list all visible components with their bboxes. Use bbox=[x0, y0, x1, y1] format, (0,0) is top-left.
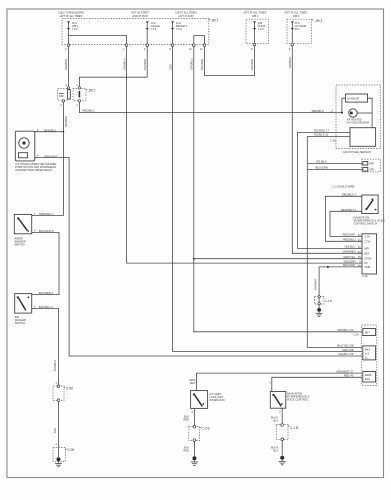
svg-text:RED: RED bbox=[184, 448, 190, 452]
wire from pin 193.8 down, branch row5, to row A bbox=[194, 47, 362, 332]
header above J/B2 fuse bbox=[244, 11, 267, 18]
J/B 1 label bbox=[209, 18, 219, 22]
SW-B2 bottom chain bbox=[281, 408, 283, 424]
exhaust inner rect R1 bbox=[345, 94, 367, 102]
svg-text:MFI: MFI bbox=[365, 246, 370, 250]
svg-text:GRN: GRN bbox=[168, 64, 172, 70]
svg-text:RED/BLU: RED/BLU bbox=[312, 109, 324, 113]
svg-text:C-2 B: C-2 B bbox=[202, 427, 210, 431]
fuse F4 bbox=[253, 21, 266, 32]
svg-text:WHT: WHT bbox=[190, 381, 196, 385]
switch SW2 (left) bbox=[15, 291, 54, 325]
svg-text:J/B 3: J/B 3 bbox=[315, 19, 322, 23]
fuse F3 bbox=[171, 21, 188, 32]
svg-text:GND: GND bbox=[365, 265, 371, 269]
svg-text:AND AT RUN: AND AT RUN bbox=[132, 14, 148, 18]
svg-text:RED/BLU: RED/BLU bbox=[64, 116, 68, 127]
svg-text:BK5: BK5 bbox=[365, 251, 370, 255]
svg-text:CONTROL SWITCH: CONTROL SWITCH bbox=[354, 222, 378, 226]
R1 output loop bbox=[368, 98, 373, 128]
svg-text:C-2 SHIELD WIRE: C-2 SHIELD WIRE bbox=[333, 184, 355, 188]
svg-text:GRN/BLU: GRN/BLU bbox=[122, 58, 126, 70]
ECU module box (right) bbox=[362, 234, 377, 278]
svg-text:EXHAUST: EXHAUST bbox=[347, 97, 360, 101]
relay assembly in J/B 2 bbox=[58, 83, 96, 107]
svg-text:30 2: 30 2 bbox=[295, 27, 301, 31]
svg-text:C7 B: C7 B bbox=[365, 239, 371, 243]
svg-text:EMPL: EMPL bbox=[365, 373, 373, 377]
svg-text:GRN/BLU: GRN/BLU bbox=[190, 58, 194, 70]
wire from pin 126.6 down to ECU row6 bbox=[127, 47, 362, 264]
header HOT IN START/RUN bbox=[131, 11, 149, 18]
fuse F5 bbox=[291, 21, 306, 32]
svg-text:MFI: MFI bbox=[370, 162, 375, 166]
jumper bar pins 193.8-204.5 bbox=[194, 36, 205, 45]
ECU2 row labels bbox=[336, 328, 354, 378]
junction block J/B 1 (dashed) bbox=[62, 19, 209, 45]
fuse F2 bbox=[146, 21, 161, 32]
svg-text:GRN/BLU 1: GRN/BLU 1 bbox=[39, 212, 54, 216]
connector C-2 B bbox=[189, 425, 210, 441]
heater element circle bbox=[347, 109, 373, 125]
svg-text:RED/BLU: RED/BLU bbox=[343, 238, 355, 242]
svg-text:J/B 1: J/B 1 bbox=[211, 18, 218, 22]
motor component (left) bbox=[15, 128, 57, 172]
header HOT AT ALL TIMES (left) bbox=[58, 11, 84, 18]
svg-text:INTERMITTENT WIPER RELAY: INTERMITTENT WIPER RELAY bbox=[15, 168, 52, 172]
svg-text:C-4 B: C-4 B bbox=[325, 299, 332, 303]
svg-text:GRN/BLU 30: GRN/BLU 30 bbox=[337, 328, 354, 332]
svg-text:MFI: MFI bbox=[370, 168, 375, 172]
svg-text:7 2.5: 7 2.5 bbox=[151, 27, 157, 31]
svg-text:RED/BLU: RED/BLU bbox=[83, 108, 95, 112]
bus from F1 to pin 126.6 bbox=[69, 32, 127, 44]
svg-text:OXYGEN SENSOR: OXYGEN SENSOR bbox=[347, 121, 370, 125]
fuse F1 C/B 1 bbox=[67, 21, 79, 32]
ECU2 module (bottom right, dashed container) bbox=[362, 325, 377, 386]
svg-text:BLU/RED: BLU/RED bbox=[250, 59, 254, 70]
svg-text:GRN/RED: GRN/RED bbox=[343, 250, 356, 254]
connector C-06 (left chain) bbox=[53, 381, 73, 401]
exhaust sensor assembly (dashed box right) bbox=[336, 85, 380, 149]
svg-text:BLK/RED 2: BLK/RED 2 bbox=[39, 291, 54, 295]
svg-text:RED/BLU: RED/BLU bbox=[64, 59, 68, 70]
SW-B1 bottom chain bbox=[193, 408, 195, 425]
svg-text:C-1 B: C-1 B bbox=[290, 426, 298, 430]
wire from J/B3 pin down to ECU row4 bbox=[292, 46, 362, 253]
svg-text:RED/WHT 2: RED/WHT 2 bbox=[341, 208, 357, 212]
svg-text:BLK: BLK bbox=[273, 418, 278, 422]
svg-text:BLU/GRN: BLU/GRN bbox=[316, 166, 328, 170]
svg-text:RED: RED bbox=[184, 418, 190, 422]
SW1 bottom wire down to SW2 bbox=[32, 232, 59, 294]
motor bottom long wire to ECU2 row D bbox=[35, 158, 362, 357]
svg-text:27GN: 27GN bbox=[365, 257, 372, 261]
wire RED/BLU from pin 68.5 to relay bbox=[68, 47, 70, 88]
svg-text:C-05: C-05 bbox=[67, 448, 74, 452]
svg-text:HOT IN RUN: HOT IN RUN bbox=[178, 14, 193, 18]
header HOT AT ALL TIMES (third) bbox=[175, 11, 197, 18]
svg-text:P2: P2 bbox=[365, 261, 369, 265]
switch SW1 (left) bbox=[14, 212, 54, 247]
svg-text:VOICE CONTROL: VOICE CONTROL bbox=[287, 397, 309, 401]
ground G1 (left) bbox=[55, 457, 62, 467]
svg-text:C-06: C-06 bbox=[66, 386, 73, 390]
exhaust inner rect R2 bbox=[350, 128, 376, 147]
MFI small dashed box bbox=[362, 159, 381, 172]
svg-text:C-16: C-16 bbox=[330, 138, 336, 142]
svg-text:BLK: BLK bbox=[273, 448, 278, 452]
svg-text:C/B 3: C/B 3 bbox=[293, 14, 300, 18]
wire F2 to pin bbox=[146, 32, 148, 44]
svg-text:J/B 2: J/B 2 bbox=[88, 89, 95, 93]
svg-text:RED/WHT: RED/WHT bbox=[342, 233, 355, 237]
junction dot and branch to R1 bbox=[341, 112, 343, 114]
SW3 wires to ECU rows 1-2 bbox=[325, 196, 362, 241]
svg-text:MFI: MFI bbox=[365, 330, 370, 334]
navigation switch SW3 (right) bbox=[354, 195, 386, 226]
svg-text:RED/BLU 3: RED/BLU 3 bbox=[342, 193, 357, 197]
svg-text:YEL/BLK: YEL/BLK bbox=[316, 160, 327, 164]
svg-text:BLU/RED: BLU/RED bbox=[200, 59, 204, 70]
svg-text:GRN/YEL: GRN/YEL bbox=[343, 255, 356, 259]
relay output long wire to exhaust sensor bbox=[79, 102, 342, 113]
ground G4 bbox=[279, 456, 286, 465]
SW-B2 top wire to ECU2 row F bbox=[272, 377, 362, 391]
svg-text:7 2.5: 7 2.5 bbox=[258, 27, 264, 31]
ground G3 bbox=[191, 456, 198, 465]
svg-text:BLK: BLK bbox=[53, 428, 57, 433]
svg-text:7 2.5: 7 2.5 bbox=[176, 27, 182, 31]
svg-text:RED/BLU: RED/BLU bbox=[288, 57, 292, 68]
wires from R2 to left corners bbox=[298, 133, 363, 249]
svg-text:E/M: E/M bbox=[365, 377, 370, 381]
svg-text:YEL/BLU 36: YEL/BLU 36 bbox=[338, 352, 354, 356]
SW-B1 top wire to ECU2 row E bbox=[196, 373, 361, 391]
connector pins on J/B bottom edges bbox=[67, 44, 70, 47]
svg-text:SWITCH: SWITCH bbox=[15, 321, 25, 325]
svg-text:7 2.5: 7 2.5 bbox=[72, 27, 78, 31]
pin numbers bbox=[65, 47, 291, 51]
wire to ground (left) bbox=[58, 402, 60, 458]
wire F3 to pin bbox=[172, 32, 174, 44]
svg-text:INTERLOCK): INTERLOCK) bbox=[209, 398, 225, 402]
svg-text:BLK/WHT: BLK/WHT bbox=[314, 278, 318, 290]
svg-text:HOT AT ALL TIMES: HOT AT ALL TIMES bbox=[60, 14, 83, 18]
svg-text:SWITCH: SWITCH bbox=[14, 243, 24, 247]
svg-text:C16: C16 bbox=[354, 332, 359, 336]
bottom switch SW-B2 bbox=[270, 391, 309, 408]
ECU row labels and pin numbers bbox=[342, 233, 356, 268]
splice connector (left bottom) bbox=[53, 448, 74, 462]
svg-text:C-16: C-16 bbox=[362, 274, 368, 278]
svg-text:BLU/WHT: BLU/WHT bbox=[143, 58, 147, 70]
ground G2 (right) bbox=[316, 308, 323, 317]
header above J/B3 fuse bbox=[285, 11, 308, 18]
U wire pin 204.5 to J/B2 fuse pin 254.5 bbox=[205, 46, 255, 76]
relay output to motor / switch chain bbox=[32, 102, 64, 215]
svg-text:BK3: BK3 bbox=[365, 347, 370, 351]
junction block J/B 3 (dashed, fuse box) bbox=[287, 19, 312, 44]
svg-text:BLK/BLU: BLK/BLU bbox=[53, 360, 57, 371]
svg-text:YEL/BLK 11: YEL/BLK 11 bbox=[313, 133, 328, 137]
svg-text:A/D OXYGEN SENSOR: A/D OXYGEN SENSOR bbox=[343, 150, 371, 154]
wire from pin 172.6 down to row C bbox=[173, 47, 362, 352]
svg-text:C/B 2: C/B 2 bbox=[252, 14, 259, 18]
connector on ground wire bbox=[315, 296, 333, 305]
connector C-1 B bbox=[276, 424, 298, 441]
ECU row7 wire to ground (right) bbox=[319, 267, 362, 310]
svg-text:YEL/BLU: YEL/BLU bbox=[344, 245, 356, 249]
junction block J/B 2 (dashed, fuse box) bbox=[246, 19, 269, 44]
wire from pin 147.2 to relay right bbox=[79, 47, 147, 88]
svg-text:2 1H: 2 1H bbox=[365, 234, 371, 238]
wires into MFI box bbox=[307, 163, 363, 165]
J/B 3 label bbox=[312, 19, 323, 23]
svg-text:A-2: A-2 bbox=[365, 351, 370, 355]
bottom switch SW-B1 bbox=[191, 391, 226, 409]
SW2 bottom wire down to connector C-06 bbox=[32, 308, 59, 385]
svg-text:RED/BLU: RED/BLU bbox=[44, 129, 56, 133]
